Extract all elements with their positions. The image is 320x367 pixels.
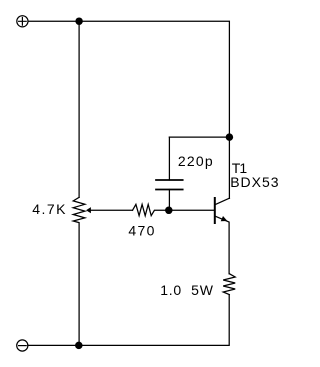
svg-text:4.7K: 4.7K	[32, 201, 67, 217]
svg-text:BDX53: BDX53	[230, 174, 279, 190]
svg-text:470: 470	[128, 222, 155, 238]
svg-text:220p: 220p	[178, 153, 214, 169]
svg-text:1.0 5W: 1.0 5W	[160, 282, 214, 298]
